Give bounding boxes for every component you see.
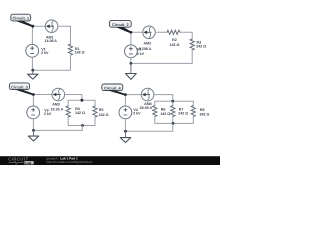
top rail xyxy=(155,100,194,102)
R8 top lead xyxy=(192,101,194,105)
flag pointer wedge xyxy=(116,27,132,33)
svg-text:LAB: LAB xyxy=(25,161,32,165)
junction dot on bottom rail xyxy=(172,122,175,125)
R6 bottom lead xyxy=(154,117,156,124)
svg-text:2 kV: 2 kV xyxy=(41,51,49,55)
wire V2 bottom xyxy=(130,58,132,64)
junction dot bottom xyxy=(32,129,35,132)
voltage source V2 xyxy=(124,45,144,58)
wire node down to V2 xyxy=(130,32,132,45)
resistor R8 xyxy=(191,106,209,117)
wire ammeter right and down to top rail xyxy=(65,95,82,101)
node junction dot xyxy=(32,93,35,96)
R8 bottom lead xyxy=(192,117,194,124)
node junction dot xyxy=(31,25,34,28)
svg-text:http:⁄⁄circuitlab.com⁄c⁄66g3ub: http:⁄⁄circuitlab.com⁄c⁄66g3ubb2ycw xyxy=(46,160,93,164)
wire V4 bottom xyxy=(124,119,126,132)
svg-text:Circuit_3: Circuit_3 xyxy=(11,84,28,89)
svg-text:22.35 A: 22.35 A xyxy=(51,108,64,112)
junction dot on bottom rail xyxy=(81,124,84,127)
R5 bottom lead xyxy=(94,117,96,126)
wire ammeter to R2 xyxy=(155,31,167,33)
svg-text:2 kV: 2 kV xyxy=(44,112,52,116)
resistor R5 xyxy=(93,106,109,117)
wire V1 bottom xyxy=(31,57,33,70)
svg-text:242 Ω: 242 Ω xyxy=(178,112,188,116)
resistor R1 xyxy=(68,44,84,55)
svg-text:342 Ω: 342 Ω xyxy=(200,112,210,116)
wire node down to V4 xyxy=(124,95,126,107)
ground xyxy=(120,138,130,143)
svg-text:R2: R2 xyxy=(172,38,177,42)
svg-text:2 kV: 2 kV xyxy=(133,112,141,116)
wire V3 bottom xyxy=(32,119,34,131)
voltage source V4 xyxy=(119,106,141,119)
svg-text:AM2: AM2 xyxy=(144,41,152,45)
R4 bottom lead xyxy=(67,117,69,126)
top rail xyxy=(68,99,95,101)
resistor R4 xyxy=(66,106,85,117)
svg-text:Circuit_1: Circuit_1 xyxy=(12,16,29,21)
node label flag Circuit_2 xyxy=(109,20,131,27)
ground stem xyxy=(32,70,34,74)
svg-text:242 Ω: 242 Ω xyxy=(99,113,109,117)
R7 top lead xyxy=(172,101,174,105)
junction dot on top rail xyxy=(171,100,174,103)
R6 top lead xyxy=(154,101,156,105)
footer bar xyxy=(0,156,220,165)
ammeter AM1 xyxy=(44,20,57,43)
svg-text:R8: R8 xyxy=(200,108,205,112)
ground xyxy=(28,136,38,141)
node label flag Circuit_1 xyxy=(11,14,31,21)
svg-text:242 Ω: 242 Ω xyxy=(196,45,206,49)
flag pointer wedge to node xyxy=(15,21,33,27)
node label flag Circuit_3 xyxy=(9,83,29,90)
wire node to ammeter xyxy=(33,94,52,96)
wire node down to V3 xyxy=(32,95,34,107)
ground xyxy=(126,74,137,80)
wire node down to V1 xyxy=(31,26,33,45)
ammeter AM4 xyxy=(140,88,154,110)
connector rail down to V4 bottom wire xyxy=(125,123,172,131)
junction dot bottom xyxy=(31,69,34,72)
ground stem xyxy=(125,131,127,137)
svg-text:142 Ω: 142 Ω xyxy=(75,51,85,55)
junction dot on top rail xyxy=(81,99,84,102)
flag pointer wedge xyxy=(14,89,33,95)
svg-text:V2: V2 xyxy=(137,48,141,52)
node junction dot xyxy=(124,93,127,96)
ground stem xyxy=(130,63,132,73)
svg-text:R6: R6 xyxy=(161,108,166,112)
ground stem xyxy=(33,130,35,136)
junction dot xyxy=(130,62,133,65)
ammeter AM2 xyxy=(139,26,155,51)
wire R1 bottom to rail xyxy=(33,55,71,70)
svg-text:28.39 A: 28.39 A xyxy=(140,106,153,110)
resistor R3 xyxy=(190,39,206,50)
flag pointer wedge xyxy=(107,90,126,95)
resistor R7 xyxy=(171,106,189,117)
svg-text:142 Ω: 142 Ω xyxy=(160,112,170,116)
svg-text:AM3: AM3 xyxy=(52,102,60,106)
R7 bottom lead xyxy=(172,117,174,124)
bottom rail xyxy=(68,125,95,127)
R4 top lead xyxy=(67,100,69,106)
svg-text:Circuit_4: Circuit_4 xyxy=(104,85,121,90)
svg-text:14.08 A: 14.08 A xyxy=(44,39,57,43)
node label flag Circuit_4 xyxy=(102,84,123,91)
resistor R6 xyxy=(153,106,171,117)
voltage source V3 xyxy=(27,106,52,119)
svg-text:Circuit_2: Circuit_2 xyxy=(112,22,129,27)
wire node to ammeter xyxy=(131,31,143,33)
svg-text:2 kV: 2 kV xyxy=(137,52,145,56)
svg-text:142 Ω: 142 Ω xyxy=(75,111,85,115)
ground xyxy=(28,74,38,79)
node junction dot xyxy=(130,31,133,34)
wire ammeter to R1 corner xyxy=(58,26,71,44)
svg-text:142 Ω: 142 Ω xyxy=(170,43,180,47)
wire R3 bottom to V2 xyxy=(131,50,192,63)
ammeter AM3 xyxy=(51,88,65,111)
bottom rail xyxy=(155,122,194,124)
svg-text:R5: R5 xyxy=(99,108,104,112)
R5 top lead xyxy=(94,100,96,106)
wire node to ammeter xyxy=(33,25,46,27)
wire ammeter right and down to top rail xyxy=(154,95,173,102)
voltage source V1 xyxy=(26,44,49,57)
resistor R2 (horizontal) xyxy=(167,30,180,47)
junction dot bottom xyxy=(124,130,127,133)
wire node to ammeter xyxy=(125,94,141,96)
connector rail to V3 bottom wire xyxy=(34,126,83,131)
wire R2 to R3 corner xyxy=(180,32,192,39)
